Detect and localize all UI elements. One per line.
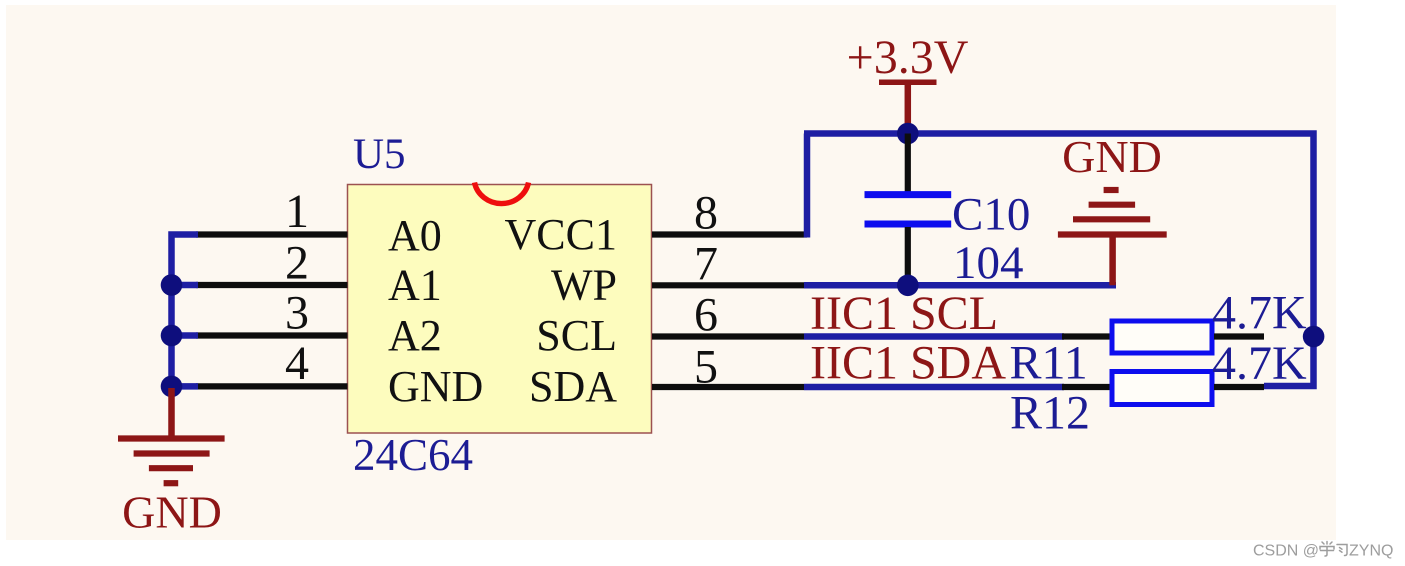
wire R12 to rail (1214, 384, 1264, 390)
wire SDA to R12 (1062, 384, 1110, 390)
svg-text:R12: R12 (1010, 387, 1090, 440)
svg-text:ZYNQ: ZYNQ (1349, 543, 1393, 560)
svg-text:4.7K: 4.7K (1212, 337, 1307, 390)
svg-text:WP: WP (551, 261, 617, 310)
junction on pin4 (161, 376, 183, 398)
wire SCL to R11 (1062, 333, 1110, 339)
wire pin4 GND (196, 383, 348, 389)
svg-text:3: 3 (285, 287, 309, 340)
junction on pin3 (161, 325, 183, 347)
watermark (1253, 542, 1393, 560)
svg-text:GND: GND (1062, 131, 1162, 182)
capacitor C10 plates (865, 195, 952, 224)
capacitor C10 top lead (905, 134, 911, 193)
wire pin8 VCC1 (652, 231, 807, 237)
svg-text:A2: A2 (388, 311, 442, 360)
resistor R11 (1112, 321, 1212, 353)
svg-text:24C64: 24C64 (353, 430, 473, 480)
svg-text:1: 1 (285, 185, 309, 238)
svg-text:VCC1: VCC1 (505, 210, 617, 259)
svg-text:SCL: SCL (536, 311, 617, 360)
ground symbol GND lower-left (118, 388, 225, 483)
svg-text:GND: GND (388, 362, 483, 411)
wire pin5 SDA from IC (652, 384, 804, 390)
wire left ground bus (172, 235, 199, 387)
svg-text:IIC1 SDA: IIC1 SDA (810, 337, 1006, 390)
svg-text:GND: GND (122, 487, 222, 538)
ground symbol GND upper-right (1058, 190, 1167, 285)
wire pin3 A2 (196, 332, 348, 338)
IC U5 body (348, 185, 652, 434)
svg-text:104: 104 (953, 237, 1024, 289)
svg-text:A0: A0 (388, 211, 442, 260)
wire SDA net segment (804, 384, 1064, 391)
svg-text:A1: A1 (388, 261, 442, 310)
wire VCC riser to rail (804, 134, 811, 238)
svg-text:IIC1 SCL: IIC1 SCL (810, 287, 998, 340)
svg-text:C10: C10 (952, 189, 1030, 241)
svg-text:+3.3V: +3.3V (847, 31, 969, 84)
U5 pin-1 orientation notch (475, 183, 529, 204)
wire SCL net segment (804, 333, 1064, 340)
junction R11 rail (1303, 326, 1325, 348)
svg-text:R11: R11 (1010, 337, 1088, 390)
junction on pin2 (161, 274, 183, 296)
svg-text:4.7K: 4.7K (1212, 287, 1307, 340)
wire pin6 SCL from IC (652, 333, 804, 339)
resistor R12 (1112, 372, 1212, 405)
svg-text:SDA: SDA (529, 362, 617, 411)
capacitor C10 bottom lead (905, 227, 911, 286)
svg-text:CSDN @: CSDN @ (1253, 543, 1319, 560)
power symbol +3.3V (879, 82, 937, 133)
wire R11 to rail (1214, 333, 1264, 339)
wire pin7 WP (652, 282, 804, 288)
wire pin1 A0 (196, 231, 348, 237)
svg-text:2: 2 (285, 237, 309, 290)
junction +3.3V rail (897, 123, 919, 145)
wire WP net to ground (804, 282, 1116, 289)
wire pin2 A1 (196, 282, 348, 288)
svg-text:U5: U5 (353, 131, 406, 178)
wire +3.3V top rail (804, 134, 1314, 387)
svg-text:4: 4 (285, 337, 309, 390)
junction WP capacitor (897, 275, 919, 297)
